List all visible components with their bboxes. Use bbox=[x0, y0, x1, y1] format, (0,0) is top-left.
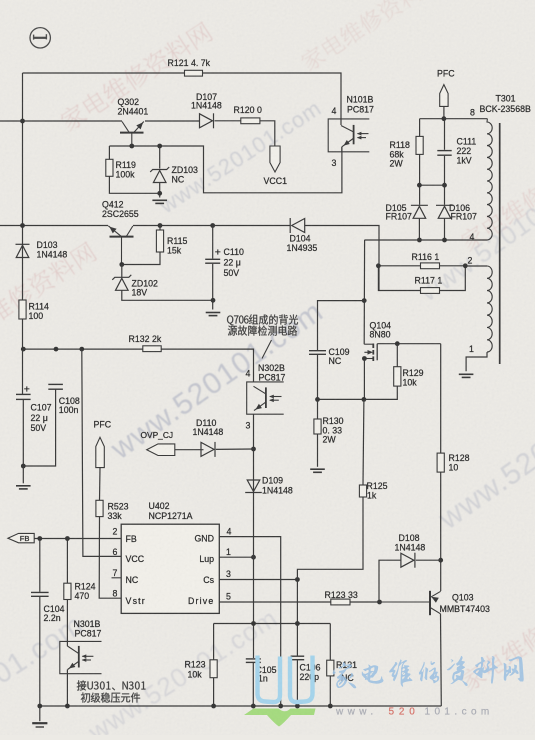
junction VCC branch bbox=[79, 347, 84, 352]
transistor Q302 bbox=[120, 122, 144, 147]
wire C106 bottom lead bbox=[296, 660, 298, 706]
junction R115 top bbox=[158, 223, 163, 228]
watermark char 网 bbox=[504, 656, 524, 681]
wire PFC to R523 bbox=[99, 468, 102, 501]
N301B light arrow 1 bbox=[82, 654, 87, 658]
wire Drive pin to R123 bbox=[219, 601, 379, 603]
watermark char 家 bbox=[333, 662, 357, 688]
junction PFC node bbox=[442, 116, 447, 121]
N302B light arrow 1 bbox=[269, 395, 274, 399]
watermark char 电 bbox=[362, 665, 384, 684]
decor bbox=[458, 183, 535, 253]
wire N301B emitter to rail bbox=[66, 670, 68, 707]
junction gnd node Q412 bbox=[211, 298, 216, 303]
wire PFC arrow stub bbox=[443, 106, 445, 118]
junction D105 bottom bbox=[417, 238, 422, 243]
decor bbox=[298, 0, 442, 73]
wire to C109 bbox=[318, 301, 365, 350]
watermark char 料 bbox=[473, 656, 498, 683]
wire R123 10k to rail bbox=[213, 678, 215, 706]
power arrow PFC left bbox=[96, 437, 105, 467]
transistor Q103 bbox=[380, 591, 441, 615]
wire OVP to D110 bbox=[175, 449, 204, 451]
diode D110 bbox=[201, 442, 215, 457]
wire R128 to Q103 emitter bbox=[440, 472, 442, 591]
annotation line3 bbox=[77, 680, 146, 690]
wire N302B pin3 bus down bbox=[253, 414, 255, 658]
annotation line2 bbox=[228, 325, 297, 335]
junction source/R125/R130 row bbox=[362, 397, 367, 402]
scan grain bbox=[0, 0, 1, 1]
wire ZD103 top lead bbox=[159, 146, 161, 169]
Q302 emitter arrow bbox=[136, 122, 143, 129]
wire Q412 to D104 bbox=[133, 225, 290, 227]
junction Cs node bbox=[295, 577, 300, 582]
wire Q103 collector to rail bbox=[440, 614, 443, 706]
wire N101B pin3 inside bbox=[341, 147, 343, 152]
wire C110 top lead bbox=[212, 226, 214, 259]
N101B light arrow 1 bbox=[357, 132, 362, 136]
capacitor C104 bbox=[31, 592, 49, 596]
wire to Q302 emitter bbox=[0, 120, 122, 122]
zener ZD103 symbol bbox=[150, 167, 169, 183]
transistor Q104 (MOSFET 8N80) bbox=[364, 344, 377, 362]
wire D106 bottom lead bbox=[444, 218, 446, 240]
wire R130 to ground bbox=[317, 434, 319, 467]
decor bbox=[58, 20, 215, 133]
wire Cs pin bbox=[219, 579, 297, 581]
diode D105 bbox=[411, 205, 428, 218]
resistor R125 bbox=[359, 485, 366, 497]
wire R118 bottom lead bbox=[419, 154, 421, 204]
junction C104 top bbox=[37, 536, 42, 541]
capacitor C108 bbox=[48, 384, 63, 389]
wire GND pin to bottom rail bbox=[219, 537, 280, 706]
resistor R128 bbox=[437, 453, 444, 472]
wire R125 top lead bbox=[362, 399, 365, 485]
wire Q302 to D107 bbox=[145, 120, 200, 122]
Q412 emitter arrow bbox=[109, 227, 116, 234]
wire R120 to VCC1 bbox=[260, 121, 275, 146]
junction Lup/D109 bbox=[251, 555, 256, 560]
wire R124 top lead bbox=[66, 539, 68, 584]
wire D105 D106 top tie bbox=[419, 184, 444, 186]
ground bottom-left bbox=[32, 723, 47, 727]
wire ZD102 top lead bbox=[121, 265, 123, 278]
wire C110 bottom lead bbox=[212, 264, 214, 310]
diode D108 bbox=[401, 553, 415, 568]
Q103 emitter arrow (PNP) bbox=[431, 597, 439, 603]
wire D107 to R120 bbox=[215, 120, 241, 122]
Q104 body arrow bbox=[368, 350, 374, 355]
junction rail/C105 bbox=[251, 704, 256, 709]
wire to ground bbox=[22, 466, 24, 483]
N302B light arrow 2 bbox=[269, 398, 274, 402]
wire left bus x=22.5 bbox=[22, 73, 24, 394]
optocoupler N301B phototransistor bbox=[67, 646, 93, 670]
diode D104 bbox=[290, 218, 305, 233]
N101B emitter arrow bbox=[344, 140, 350, 146]
junction R130 top bbox=[315, 397, 320, 402]
wire R131 top lead bbox=[329, 624, 331, 661]
transformer T301 core bbox=[499, 123, 501, 364]
wire left to Q412 bbox=[0, 225, 108, 227]
wire pin8 row bbox=[420, 118, 488, 120]
junction C111/D106 bbox=[442, 183, 447, 188]
watermark book base bbox=[244, 709, 316, 727]
U402 NC pin stub bbox=[112, 577, 122, 579]
wire R130 top lead bbox=[317, 399, 319, 419]
junction C109 tap bbox=[362, 298, 367, 303]
junction rail/C106 bbox=[295, 704, 300, 709]
capacitor C109 bbox=[309, 351, 326, 355]
power arrow VCC1 bbox=[270, 146, 280, 172]
junction C108 top bbox=[54, 347, 59, 352]
junction C110 top bbox=[210, 223, 215, 228]
wire D110 to pin3 bus bbox=[216, 448, 254, 450]
wire R118 top lead bbox=[419, 119, 421, 137]
wire R129 top lead bbox=[396, 344, 398, 367]
wire rail ground stub bbox=[39, 706, 41, 721]
connector symbol (circled minus) bbox=[30, 28, 50, 48]
resistor R129 bbox=[394, 367, 401, 386]
junction ZD102 top bbox=[119, 262, 124, 267]
capacitor C110 (electrolytic) bbox=[205, 259, 220, 263]
junction C106 bbox=[295, 621, 300, 626]
wire pin1 to ground bbox=[466, 352, 487, 371]
watermark char 资 bbox=[447, 656, 468, 686]
wire C104 top lead bbox=[39, 539, 41, 592]
wire C106 top lead bbox=[296, 624, 298, 656]
wire R116 row bbox=[378, 265, 465, 267]
wire to R119 bbox=[108, 146, 110, 159]
ground under C107 bbox=[16, 486, 31, 489]
junction rail/N301B bbox=[65, 704, 70, 709]
diode D103 bbox=[16, 244, 30, 257]
annotation line4 bbox=[81, 692, 140, 702]
optocoupler N301B box bbox=[60, 641, 102, 673]
wire C111 top lead bbox=[444, 119, 446, 150]
capacitor C106 bbox=[291, 656, 305, 660]
junction rail/R123 10k bbox=[211, 704, 216, 709]
annotation line1 bbox=[227, 314, 298, 325]
decor bbox=[458, 584, 535, 692]
wire FB row bbox=[34, 538, 121, 540]
resistor R124 bbox=[64, 583, 71, 599]
wire D108 anode branch bbox=[379, 560, 401, 602]
N302B emitter arrow bbox=[255, 404, 262, 410]
wire D104 to R116/R117 bbox=[305, 226, 379, 291]
wire pin2 lead bbox=[465, 265, 487, 267]
wire R117 loop bbox=[378, 266, 465, 291]
resistor R119 bbox=[106, 159, 113, 176]
N301B light arrow 2 bbox=[82, 658, 87, 662]
wire R129 bottom row bbox=[318, 386, 398, 399]
junction D110 row bbox=[251, 447, 256, 452]
junction D106 bottom bbox=[442, 238, 447, 243]
decor bbox=[0, 240, 98, 353]
wire C104 bottom lead bbox=[39, 597, 41, 706]
wire R124 to N301B bbox=[66, 600, 68, 647]
resistor R132 bbox=[143, 346, 161, 352]
annotation pointer line bbox=[262, 340, 272, 359]
transformer T301 secondary winding bbox=[487, 266, 492, 352]
resistor R130 bbox=[314, 419, 321, 434]
junction R124 top bbox=[65, 536, 70, 541]
junction C107/C108 gnd bbox=[21, 464, 26, 469]
capacitor C111 bbox=[437, 151, 451, 156]
junction R118/D105 bbox=[417, 183, 422, 188]
wire R119 bottom bbox=[109, 176, 159, 193]
zener ZD102 bbox=[112, 275, 131, 291]
resistor R121 bbox=[185, 70, 203, 76]
N301B emitter arrow bbox=[69, 663, 76, 669]
junction rail/R131 bbox=[328, 704, 333, 709]
wire VCC row to N302B bbox=[23, 349, 253, 382]
ground under ZD103 bbox=[152, 200, 167, 203]
wire R131 to rail bbox=[329, 676, 331, 706]
wire bottom rail bbox=[40, 705, 442, 707]
wire C108 bottom lead bbox=[23, 390, 55, 466]
ground under R130 bbox=[310, 469, 325, 472]
wire D105 bottom lead bbox=[418, 218, 420, 240]
diode D106 bbox=[436, 205, 453, 218]
resistor R118 bbox=[416, 136, 423, 154]
diode D107 bbox=[200, 113, 214, 128]
optocoupler N302B phototransistor bbox=[254, 386, 282, 410]
power arrow PFC top bbox=[440, 85, 448, 107]
wire snubber row bbox=[214, 623, 331, 625]
wire R115 to base node bbox=[122, 252, 160, 265]
watermark char 修 bbox=[419, 661, 439, 684]
net arrow OVP_CJ bbox=[147, 444, 175, 456]
junction D108 cathode bbox=[438, 558, 443, 563]
net arrow FB bbox=[8, 533, 34, 542]
ground T301 pin1 bbox=[459, 374, 474, 377]
wire R125 to Cs node bbox=[297, 497, 363, 624]
N101B light arrow 2 bbox=[357, 136, 362, 140]
capacitor C105 bbox=[246, 659, 261, 663]
IC U402 NCP1271A box bbox=[121, 524, 219, 613]
junction left bus / Q302 row bbox=[20, 119, 25, 124]
op-amp/optocoupler N101B box bbox=[328, 119, 369, 152]
wire pin4 row bbox=[364, 239, 487, 241]
junction Q104 source bbox=[362, 356, 367, 361]
wire ZD102 bottom to gnd node bbox=[122, 290, 213, 300]
resistor R114 bbox=[19, 300, 26, 319]
transformer T301 primary winding bbox=[487, 119, 492, 240]
transistor Q412 bbox=[108, 226, 133, 265]
wire top rail to N101B pin4 bbox=[23, 73, 342, 125]
wire C111 bottom lead bbox=[444, 156, 446, 205]
wire C109 bottom lead bbox=[317, 355, 319, 400]
junction R116 left bbox=[376, 263, 381, 268]
junction Q302 base bbox=[129, 144, 134, 149]
ground under C110 bbox=[206, 313, 221, 316]
wire C105 bottom lead bbox=[252, 663, 254, 706]
wire R115 top lead bbox=[159, 226, 161, 231]
resistor R120 bbox=[241, 118, 260, 124]
wire gate to R128 bbox=[440, 344, 442, 453]
wire switch node down bbox=[363, 240, 365, 344]
resistor R123 (33) bbox=[331, 599, 350, 605]
wire C107 bottom lead bbox=[22, 400, 24, 466]
watermark char 维 bbox=[389, 659, 412, 686]
junction R116 right bbox=[463, 263, 468, 268]
wire VCC line to U402 pin6 bbox=[82, 349, 121, 556]
wire ZD103 to ground bbox=[159, 183, 161, 198]
junction rail/C104 bbox=[37, 704, 42, 709]
optocoupler N302B box bbox=[247, 382, 284, 414]
junction Drive/D108/Q103 base bbox=[377, 600, 382, 605]
diode D109 bbox=[245, 480, 262, 493]
watermark book icon bbox=[258, 656, 313, 703]
wire base row to N101B pin3 bbox=[109, 146, 342, 193]
resistor R123 (10k) bbox=[210, 660, 217, 678]
wire Lup pin bbox=[219, 556, 253, 558]
resistor R116 bbox=[421, 263, 440, 269]
wire R523 to Vstr pin8 bbox=[99, 517, 121, 599]
resistor R131 bbox=[327, 660, 334, 676]
junction C107 top bbox=[21, 347, 26, 352]
resistor R523 bbox=[96, 500, 103, 516]
wire source down bbox=[363, 359, 365, 400]
capacitor C107 (electrolytic) bbox=[16, 394, 31, 399]
resistor R115 bbox=[156, 230, 163, 252]
junction R129 top bbox=[395, 341, 400, 346]
wire gate row bbox=[377, 343, 441, 345]
junction ZD103 top bbox=[157, 144, 162, 149]
junction rail/GND line bbox=[278, 704, 283, 709]
wire R123 10k top lead bbox=[213, 624, 215, 660]
junction ZD103 bottom bbox=[157, 191, 162, 196]
optocoupler N101B phototransistor bbox=[341, 125, 369, 147]
junction C105 bbox=[251, 621, 256, 626]
resistor R117 bbox=[421, 288, 440, 294]
junction left bus row2 bbox=[20, 223, 25, 228]
wire D108 cathode lead bbox=[416, 559, 441, 561]
